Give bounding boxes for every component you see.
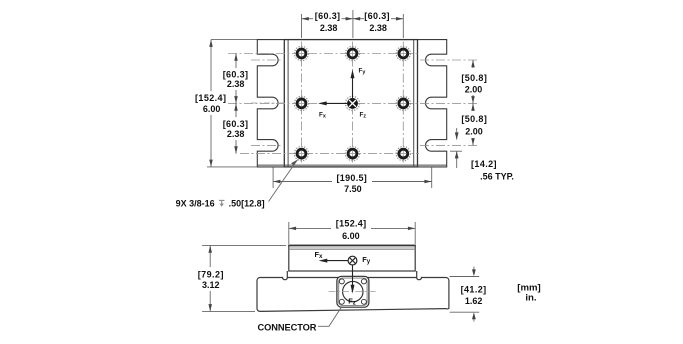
svg-text:1.62: 1.62 xyxy=(465,296,483,306)
79.2 dimension xyxy=(202,244,286,246)
svg-text:[60.3]: [60.3] xyxy=(223,69,249,79)
top plate gray band xyxy=(289,246,414,249)
152.4 dimension (bottom view) xyxy=(288,222,290,244)
svg-text:[152.4]: [152.4] xyxy=(336,218,367,228)
centerline row 3 xyxy=(240,153,419,155)
plate outline xyxy=(284,40,417,167)
lower body (base side view) xyxy=(257,271,449,311)
hole r2c3 xyxy=(396,96,410,110)
hole r3c1 xyxy=(294,147,308,161)
svg-text:2.00: 2.00 xyxy=(465,84,483,94)
190.5 overall dimension xyxy=(272,168,274,189)
plate inner edge left xyxy=(287,40,289,167)
top dimension 60.3 left: line + arrows xyxy=(302,18,404,20)
centerline right slot 3 xyxy=(420,144,478,146)
svg-text:6.00: 6.00 xyxy=(342,231,360,241)
centerline column 2 xyxy=(352,42,354,166)
svg-text:7.50: 7.50 xyxy=(344,184,362,194)
Fx arrow xyxy=(318,101,348,119)
14.2 slot width dimension xyxy=(450,150,462,152)
svg-text:[60.3]: [60.3] xyxy=(364,11,390,21)
svg-text:[190.5]: [190.5] xyxy=(336,173,367,183)
41.2 dimension xyxy=(450,276,480,278)
hole r3c2 xyxy=(345,147,359,161)
centerline left slot 2 xyxy=(251,102,283,104)
hole r1c3 xyxy=(396,46,410,60)
svg-text:3.12: 3.12 xyxy=(202,280,220,290)
connector xyxy=(337,276,369,307)
hole r3c3 xyxy=(396,147,410,161)
svg-text:Fy: Fy xyxy=(362,255,371,265)
svg-text:2.38: 2.38 xyxy=(227,129,245,139)
hole r1c2 xyxy=(345,46,359,60)
Fz arrow (bottom view) xyxy=(348,265,356,306)
svg-text:[152.4]: [152.4] xyxy=(195,93,226,103)
centerline left slot 1 xyxy=(251,59,283,61)
right rail with 3 slots xyxy=(418,40,447,167)
svg-text:[41.2]: [41.2] xyxy=(461,284,487,294)
9X thread callout leader xyxy=(269,160,298,202)
right 50.8 dimensions (between slot centers) xyxy=(472,60,474,145)
left 152.4 dimension xyxy=(211,39,257,41)
svg-text:CONNECTOR: CONNECTOR xyxy=(258,323,317,333)
svg-text:9X 3/8-16: 9X 3/8-16 xyxy=(176,199,215,209)
Fy into-page symbol (bottom view) xyxy=(348,256,357,265)
svg-text:[50.8]: [50.8] xyxy=(461,114,487,124)
svg-text:2.38: 2.38 xyxy=(227,79,245,89)
svg-text:Fx: Fx xyxy=(315,250,324,260)
svg-text:in.: in. xyxy=(525,292,536,303)
hole r1c1 xyxy=(294,46,308,60)
centerline column 3 xyxy=(402,42,404,166)
center hole with Fz into-page symbol xyxy=(345,96,359,110)
depth symbol xyxy=(219,200,225,204)
Fy arrow xyxy=(351,68,366,101)
plate inner edge bottom xyxy=(257,164,446,166)
centerline column 1 xyxy=(301,42,303,166)
left rail with 3 slots xyxy=(257,40,284,167)
Fx arrow (bottom view) xyxy=(315,250,348,263)
svg-text:[14.2]: [14.2] xyxy=(471,159,497,169)
plate inner edge right xyxy=(413,40,415,167)
top dimension extension lines xyxy=(301,14,303,38)
svg-text:6.00: 6.00 xyxy=(203,104,221,114)
svg-text:[60.3]: [60.3] xyxy=(223,119,249,129)
centerline row 1 xyxy=(228,53,419,55)
svg-text:2.38: 2.38 xyxy=(320,23,338,33)
svg-text:Fy: Fy xyxy=(359,68,366,76)
centerline right slot 2 xyxy=(420,102,478,104)
svg-text:Fz: Fz xyxy=(360,112,367,120)
svg-text:Fx: Fx xyxy=(319,112,326,120)
base top edge line behind connector xyxy=(287,277,416,279)
hole r2c1 xyxy=(294,96,308,110)
left 60.3 dimensions (between hole rows) xyxy=(235,54,237,154)
svg-text:.50[12.8]: .50[12.8] xyxy=(229,199,265,209)
centerline right slot 1 xyxy=(420,59,478,61)
centerline row 2 xyxy=(228,102,419,104)
svg-text:.56 TYP.: .56 TYP. xyxy=(480,171,514,181)
centerline left slot 3 xyxy=(251,144,283,146)
svg-text:2.00: 2.00 xyxy=(465,126,483,136)
svg-text:[50.8]: [50.8] xyxy=(461,73,487,83)
svg-text:[79.2]: [79.2] xyxy=(198,270,224,280)
svg-text:[60.3]: [60.3] xyxy=(315,11,341,21)
upper body (top plate side view) xyxy=(289,245,415,271)
svg-text:2.38: 2.38 xyxy=(369,23,387,33)
connector centerline xyxy=(329,291,378,293)
